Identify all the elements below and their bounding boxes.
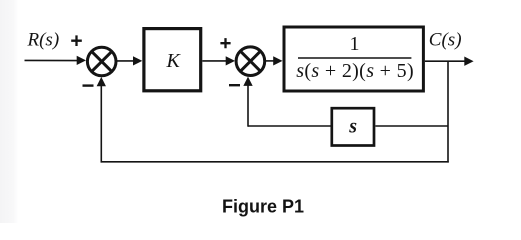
wire outer feedback up into summer S1 (100, 85, 102, 163)
wire output tap vertical (447, 61, 449, 162)
sign + at summer S2 (220, 38, 230, 48)
wire outer feedback bottom run (101, 161, 449, 163)
wire input R(s) to summer S1 (25, 59, 78, 61)
wire summer S1 to block K (117, 60, 134, 62)
sign − at summer S1 (83, 84, 94, 86)
summing junction S2 (236, 47, 265, 76)
block G(s) plant 1/(s(s+2)(s+5)) (284, 27, 423, 91)
summing junction S1 (87, 47, 116, 76)
svg-text:s: s (348, 116, 357, 138)
wire block s to inner feedback corner (248, 125, 331, 127)
svg-text:R(s): R(s) (27, 29, 60, 50)
wire summer S2 to plant block (266, 60, 275, 62)
wire block K to summer S2 (202, 60, 226, 62)
fraction bar (298, 57, 411, 59)
wire inner feedback up into summer S2 (247, 85, 249, 127)
sign + at summer S1 (71, 35, 82, 46)
wire output to C(s) (425, 60, 465, 62)
sign − at summer S2 (229, 84, 240, 86)
svg-text:K: K (166, 50, 182, 72)
svg-text:C(s): C(s) (429, 29, 462, 50)
wire tap to block s (375, 125, 448, 127)
svg-text:1: 1 (350, 33, 360, 55)
block s (rate feedback) (332, 108, 374, 145)
svg-text:Figure P1: Figure P1 (222, 197, 304, 217)
block K (gain) (144, 29, 201, 91)
svg-text:s(s + 2)(s + 5): s(s + 2)(s + 5) (296, 60, 414, 82)
